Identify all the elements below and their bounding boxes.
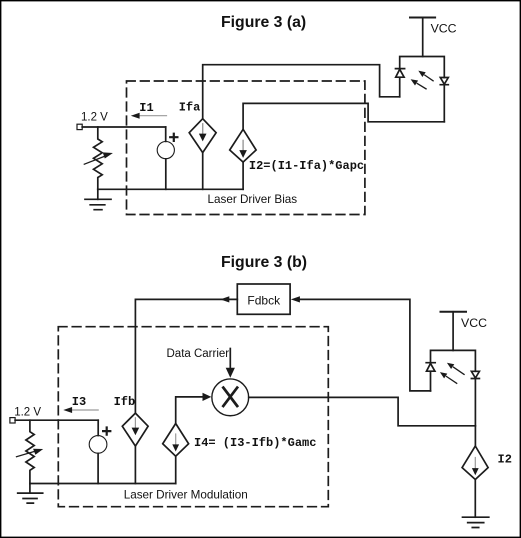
ground (fig a) [97,189,99,199]
wire multiplier output to laser diode [249,397,476,425]
svg-text:VCC: VCC [431,22,457,36]
wire Fdbck output to Ifb [135,299,237,413]
power VCC (fig b) [441,311,467,313]
wire bottom rail (fig a) [98,188,243,190]
svg-text:Figure 3 (b): Figure 3 (b) [221,254,307,271]
svg-text:I4= (I3-Ifb)*Gamc: I4= (I3-Ifb)*Gamc [194,436,316,450]
svg-text:Fdbck: Fdbck [247,294,281,308]
dependent source I4 [163,424,189,457]
wire diode pair frame (fig b) [431,350,476,446]
svg-text:I3: I3 [72,395,86,409]
svg-text:I1: I1 [139,101,153,115]
wire I2 source to laser diode [243,103,444,129]
optical coupling arrows (fig b) [454,367,465,374]
dependent source I2 (fig b) [462,446,488,480]
current source I3 (fig b) [89,436,107,454]
svg-text:I2: I2 [498,453,512,467]
wire diode pair frame (fig a) [400,57,445,122]
dashed box Laser Driver Bias [127,81,365,215]
multiplier mixer [212,379,249,416]
laser diode D2 (fig a) [440,78,448,85]
dashed box Laser Driver Modulation [58,327,328,507]
laser diode D4 (fig b) [471,371,479,378]
photodiode D1 monitor (fig a) [396,69,405,78]
wire 1.2V rail (fig b) [15,419,98,421]
current arrow I3 [72,409,99,411]
optical coupling arrows (fig a) [425,75,433,81]
svg-text:Ifa: Ifa [179,100,201,114]
svg-text:I2=(I1-Ifa)*Gapc: I2=(I1-Ifa)*Gapc [249,159,364,173]
wire photodiode to Fdbck input [300,299,431,391]
ground (fig b left) [29,484,31,494]
svg-text:1.2 V: 1.2 V [81,112,108,124]
svg-text:Data Carrier: Data Carrier [167,348,230,360]
current source I1 (fig a) [157,142,174,159]
svg-text:Ifb: Ifb [114,395,136,409]
svg-text:VCC: VCC [461,316,487,330]
variable resistor R1 (fig a) [94,127,103,189]
svg-text:Figure 3 (a): Figure 3 (a) [221,14,306,31]
wire I4 to multiplier [176,397,202,424]
current arrow I1 [139,115,167,117]
dependent source I2 (fig a) [230,129,256,162]
svg-text:Laser Driver Modulation: Laser Driver Modulation [124,488,248,501]
svg-text:Laser Driver Bias: Laser Driver Bias [208,193,298,206]
photodiode D3 monitor (fig b) [426,363,435,372]
wire Ifa top to photodiode [203,65,400,119]
wire 1.2V rail (fig a) [82,126,166,128]
ground (fig b right) [474,480,476,518]
variable resistor R2 (fig b) [26,420,34,483]
block Fdbck [237,284,290,314]
power VCC (fig a) [410,17,435,19]
svg-text:1.2 V: 1.2 V [14,407,41,419]
wire bottom rail (fig b) [30,483,176,485]
